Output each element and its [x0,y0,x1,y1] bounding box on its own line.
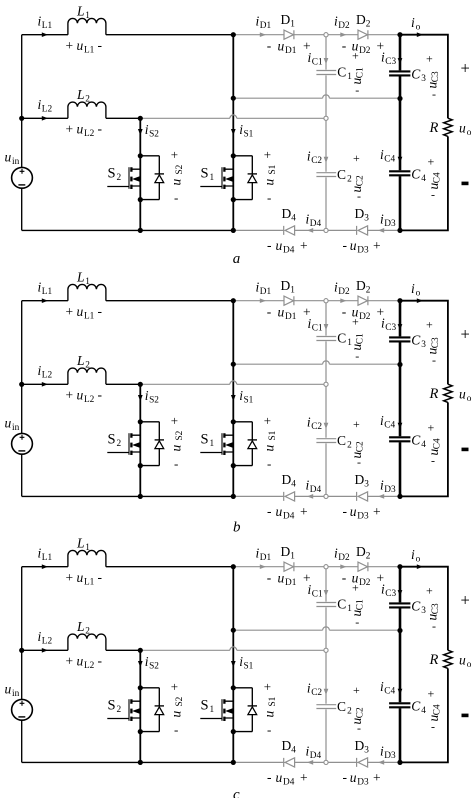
svg-text:c: c [233,787,240,798]
svg-text:b: b [233,520,241,536]
svg-text:a: a [233,251,241,267]
